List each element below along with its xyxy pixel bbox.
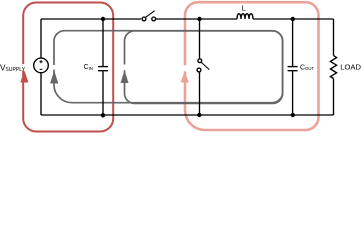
svg-text:L: L — [242, 4, 246, 13]
svg-text:LOAD: LOAD — [340, 63, 361, 72]
svg-text:IN: IN — [89, 66, 93, 71]
svg-text:SUPPLY: SUPPLY — [5, 67, 25, 73]
svg-text:OUT: OUT — [305, 66, 314, 71]
